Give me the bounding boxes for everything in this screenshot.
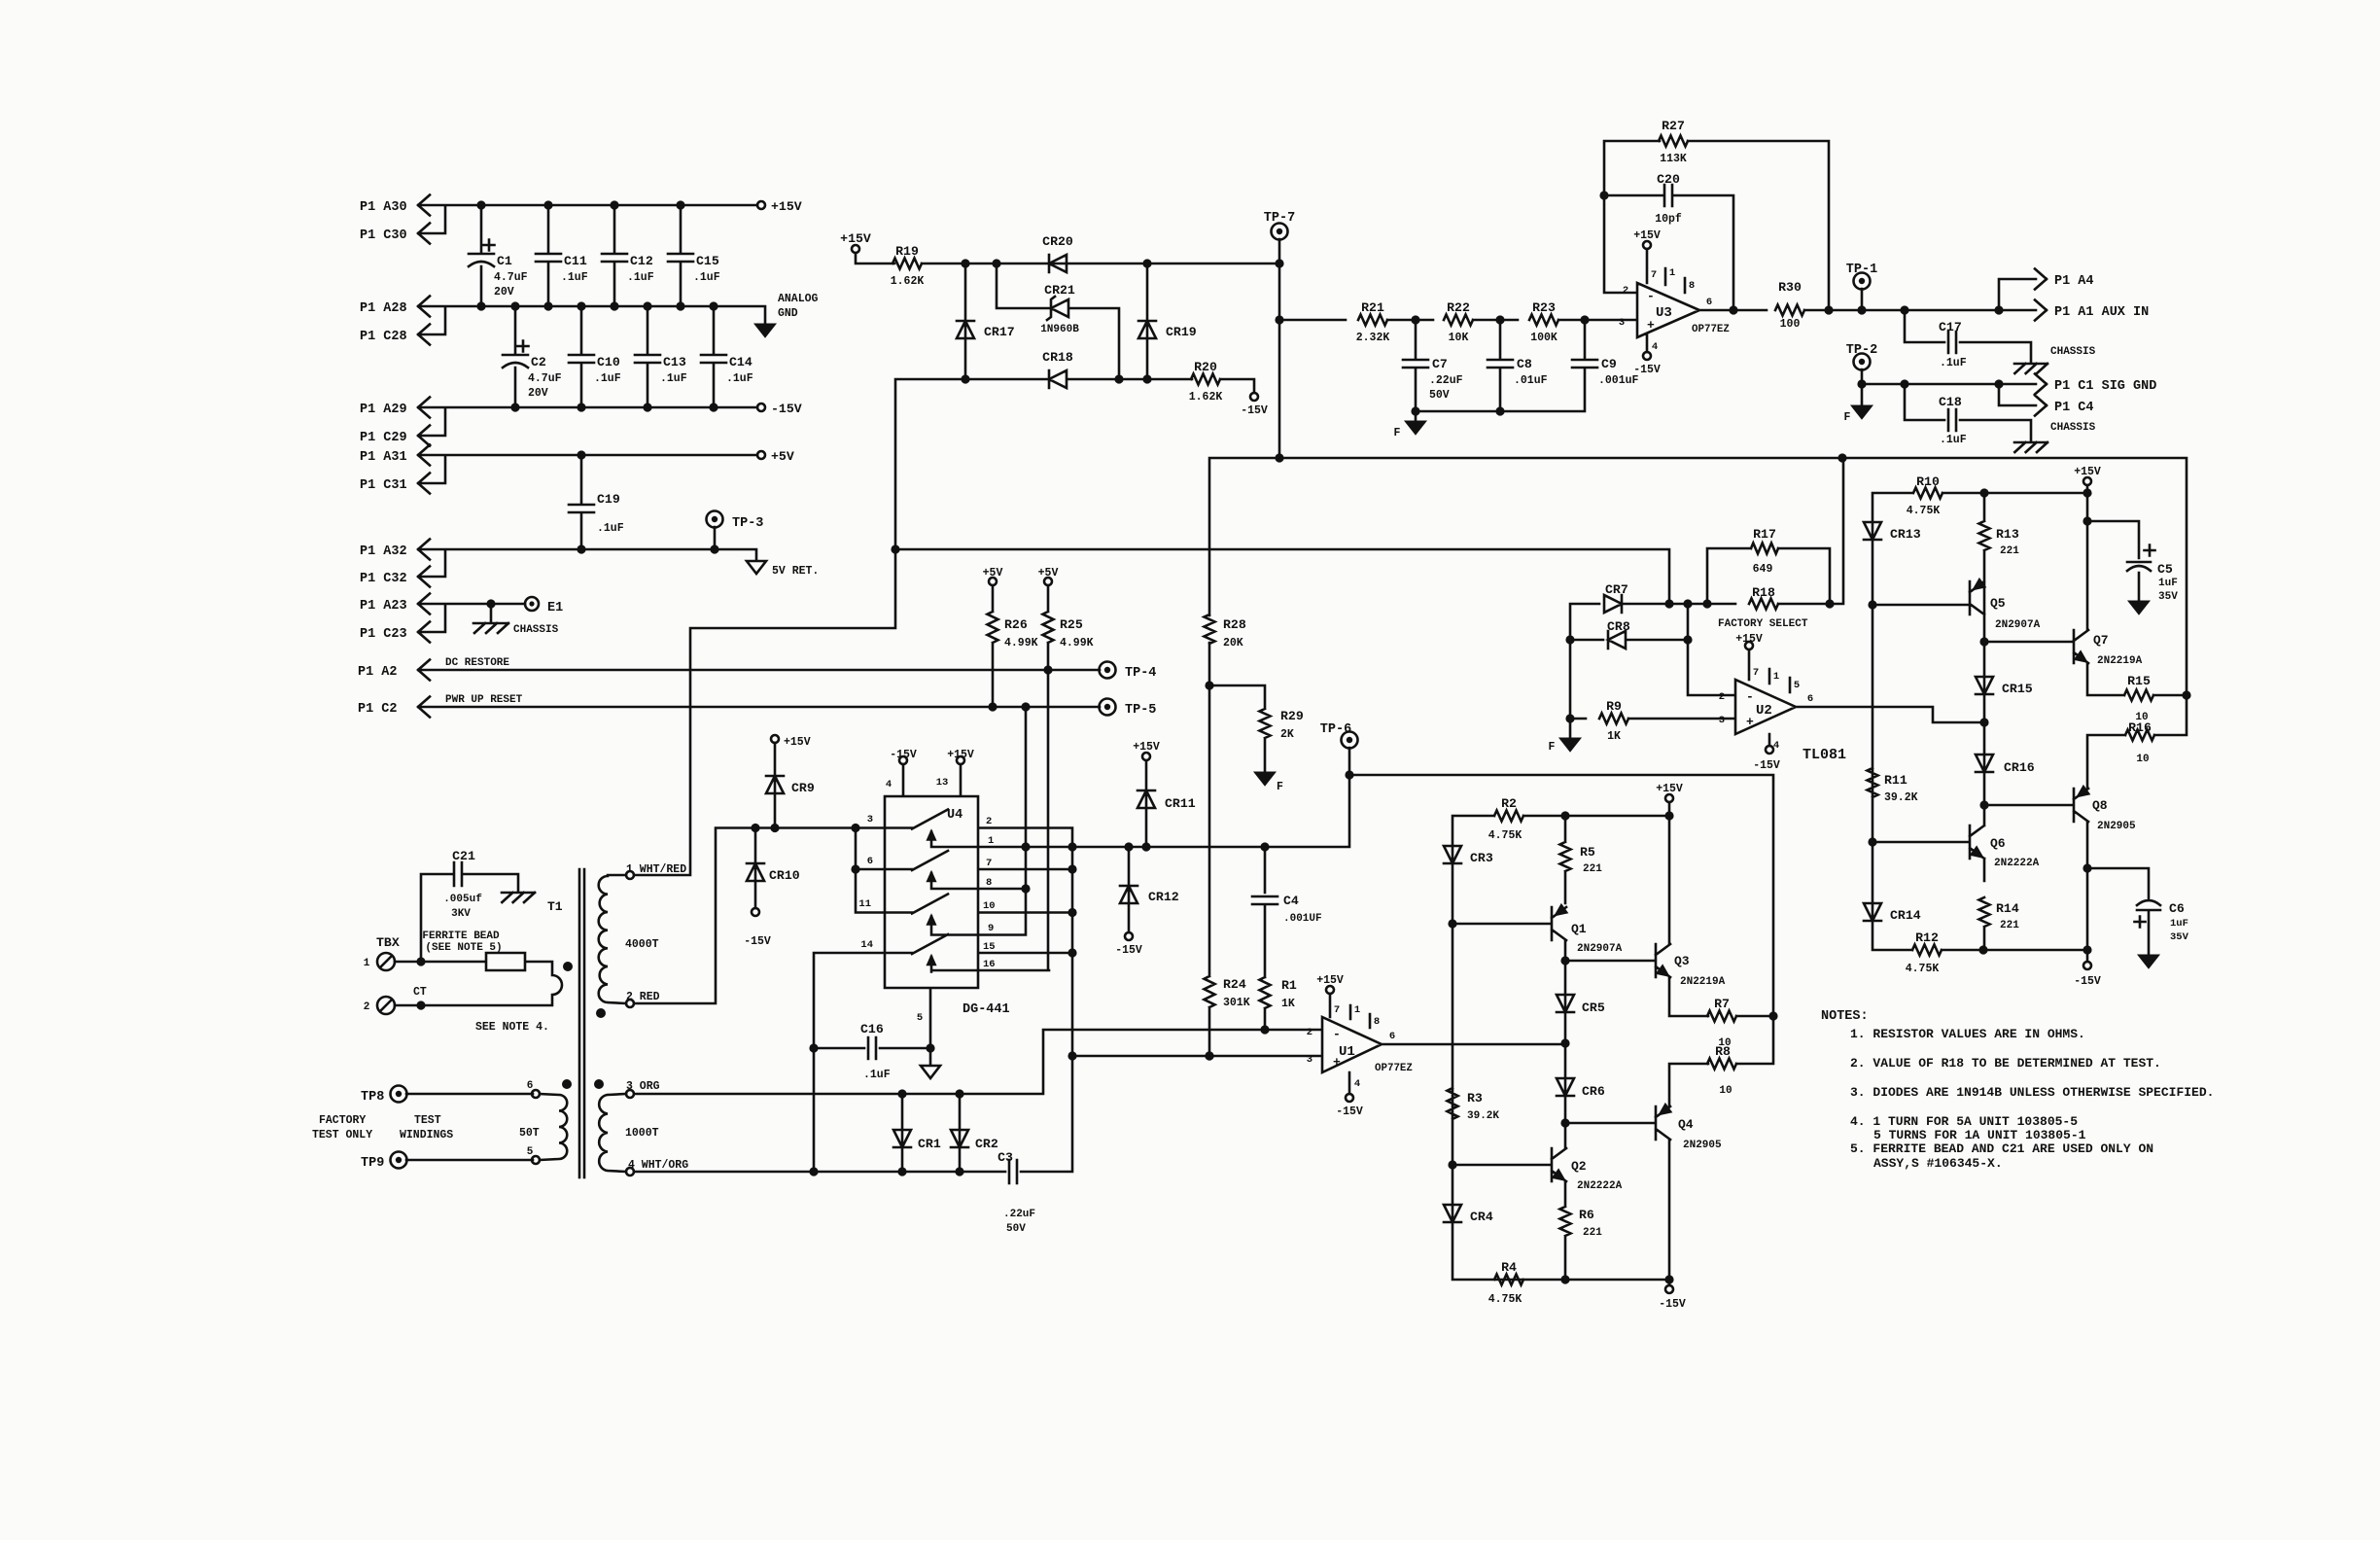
svg-text:.1uF: .1uF bbox=[1940, 357, 1967, 369]
svg-text:2N2905: 2N2905 bbox=[2097, 821, 2136, 832]
svg-text:CR10: CR10 bbox=[769, 868, 800, 883]
svg-text:-15V: -15V bbox=[2074, 975, 2101, 988]
svg-text:.1uF: .1uF bbox=[627, 271, 654, 284]
svg-text:2K: 2K bbox=[1280, 728, 1294, 741]
svg-text:C11: C11 bbox=[564, 254, 587, 268]
svg-text:14: 14 bbox=[860, 939, 873, 951]
svg-text:P1 C4: P1 C4 bbox=[2054, 401, 2094, 415]
svg-text:CHASSIS: CHASSIS bbox=[2050, 346, 2096, 358]
svg-text:OP77EZ: OP77EZ bbox=[1692, 324, 1730, 335]
svg-text:6: 6 bbox=[1807, 693, 1813, 705]
svg-text:R2: R2 bbox=[1501, 796, 1517, 811]
svg-text:TP-7: TP-7 bbox=[1264, 211, 1295, 226]
svg-text:1: 1 bbox=[988, 835, 994, 847]
svg-text:P1 C29: P1 C29 bbox=[360, 431, 407, 445]
svg-text:SEE NOTE 4.: SEE NOTE 4. bbox=[475, 1021, 549, 1034]
svg-text:6: 6 bbox=[1706, 297, 1712, 308]
svg-text:2N2219A: 2N2219A bbox=[2097, 655, 2143, 667]
svg-text:R16: R16 bbox=[2128, 720, 2152, 735]
svg-text:R19: R19 bbox=[895, 244, 919, 259]
svg-text:1: 1 bbox=[1669, 267, 1675, 279]
svg-text:CR2: CR2 bbox=[975, 1137, 998, 1151]
svg-text:R1: R1 bbox=[1281, 978, 1297, 993]
svg-text:113K: 113K bbox=[1660, 153, 1687, 165]
svg-text:39.2K: 39.2K bbox=[1884, 791, 1918, 804]
svg-text:Q2: Q2 bbox=[1571, 1159, 1587, 1174]
svg-text:7: 7 bbox=[1334, 1004, 1340, 1016]
svg-text:-15V: -15V bbox=[1336, 1106, 1363, 1118]
svg-text:+15V: +15V bbox=[2074, 466, 2101, 478]
svg-text:20V: 20V bbox=[494, 286, 514, 298]
svg-text:1.62K: 1.62K bbox=[891, 275, 925, 288]
svg-text:TP-6: TP-6 bbox=[1320, 722, 1351, 737]
svg-text:3: 3 bbox=[1719, 715, 1725, 726]
svg-text:1uF: 1uF bbox=[2170, 918, 2188, 930]
svg-text:.22uF: .22uF bbox=[1429, 374, 1463, 387]
svg-text:-15V: -15V bbox=[890, 749, 917, 761]
svg-text:2: 2 bbox=[1719, 691, 1725, 703]
svg-text:+15V: +15V bbox=[1656, 783, 1683, 795]
svg-text:GND: GND bbox=[778, 307, 798, 320]
svg-text:DC RESTORE: DC RESTORE bbox=[445, 657, 509, 669]
svg-text:P1 A31: P1 A31 bbox=[360, 450, 407, 465]
svg-text:3: 3 bbox=[867, 814, 873, 825]
svg-text:20K: 20K bbox=[1223, 637, 1243, 650]
svg-text:20V: 20V bbox=[528, 387, 548, 400]
svg-text:CR16: CR16 bbox=[2004, 760, 2035, 775]
svg-text:P1 A2: P1 A2 bbox=[358, 665, 398, 680]
svg-text:R15: R15 bbox=[2127, 674, 2151, 688]
svg-text:CHASSIS: CHASSIS bbox=[2050, 422, 2096, 434]
svg-text:16: 16 bbox=[983, 959, 996, 970]
svg-text:P1 A28: P1 A28 bbox=[360, 301, 407, 316]
svg-text:R9: R9 bbox=[1606, 699, 1622, 714]
svg-text:C5: C5 bbox=[2157, 562, 2173, 577]
svg-text:2N2222A: 2N2222A bbox=[1577, 1180, 1623, 1192]
svg-text:C20: C20 bbox=[1657, 172, 1680, 187]
svg-text:CR3: CR3 bbox=[1470, 851, 1493, 865]
svg-text:(SEE NOTE 5): (SEE NOTE 5) bbox=[425, 942, 502, 954]
svg-text:P1 C28: P1 C28 bbox=[360, 330, 407, 344]
svg-text:R14: R14 bbox=[1996, 901, 2019, 916]
svg-text:5: 5 bbox=[917, 1012, 923, 1024]
svg-text:TEST: TEST bbox=[414, 1114, 441, 1127]
svg-text:C16: C16 bbox=[860, 1022, 884, 1036]
svg-text:+15V: +15V bbox=[771, 199, 802, 214]
svg-text:4.75K: 4.75K bbox=[1488, 829, 1522, 842]
svg-text:+5V: +5V bbox=[1038, 567, 1059, 579]
svg-text:C21: C21 bbox=[452, 849, 475, 863]
svg-text:ASSY,S #106345-X.: ASSY,S #106345-X. bbox=[1873, 1156, 2003, 1171]
svg-text:9: 9 bbox=[988, 923, 994, 934]
svg-text:R24: R24 bbox=[1223, 977, 1246, 992]
svg-text:50T: 50T bbox=[519, 1127, 540, 1140]
svg-text:8: 8 bbox=[986, 877, 992, 889]
svg-text:CR8: CR8 bbox=[1607, 619, 1630, 634]
svg-text:P1 C23: P1 C23 bbox=[360, 627, 407, 642]
svg-text:4: 4 bbox=[1354, 1078, 1360, 1090]
svg-text:R29: R29 bbox=[1280, 709, 1304, 723]
svg-text:39.2K: 39.2K bbox=[1467, 1110, 1499, 1122]
svg-text:4. 1 TURN FOR 5A UNIT 103805-5: 4. 1 TURN FOR 5A UNIT 103805-5 bbox=[1850, 1114, 2078, 1129]
svg-text:P1 A32: P1 A32 bbox=[360, 544, 407, 559]
svg-text:1: 1 bbox=[364, 958, 370, 969]
svg-text:R4: R4 bbox=[1501, 1260, 1517, 1275]
svg-text:R26: R26 bbox=[1004, 617, 1028, 632]
svg-text:CR12: CR12 bbox=[1148, 890, 1179, 904]
svg-text:P1 C32: P1 C32 bbox=[360, 572, 407, 586]
svg-text:P1 A23: P1 A23 bbox=[360, 599, 407, 614]
svg-text:1N960B: 1N960B bbox=[1040, 324, 1079, 335]
svg-text:2: 2 bbox=[986, 816, 992, 827]
svg-text:TP-1: TP-1 bbox=[1846, 263, 1877, 277]
svg-text:2N2907A: 2N2907A bbox=[1995, 619, 2041, 631]
svg-text:R5: R5 bbox=[1580, 845, 1595, 860]
svg-text:+15V: +15V bbox=[947, 749, 974, 761]
svg-text:FACTORY SELECT: FACTORY SELECT bbox=[1718, 618, 1808, 630]
svg-text:10K: 10K bbox=[1449, 332, 1469, 344]
svg-text:10pf: 10pf bbox=[1655, 213, 1682, 226]
svg-text:1: 1 bbox=[1773, 671, 1779, 683]
svg-text:1 WHT/RED: 1 WHT/RED bbox=[626, 863, 686, 876]
svg-text:221: 221 bbox=[1583, 863, 1602, 875]
svg-text:ANALOG: ANALOG bbox=[778, 293, 819, 305]
svg-text:CHASSIS: CHASSIS bbox=[513, 624, 559, 636]
svg-text:2: 2 bbox=[1307, 1027, 1312, 1038]
svg-text:221: 221 bbox=[2000, 920, 2019, 931]
svg-text:C3: C3 bbox=[997, 1150, 1013, 1165]
svg-text:CR9: CR9 bbox=[791, 781, 815, 795]
svg-text:WINDINGS: WINDINGS bbox=[400, 1129, 453, 1141]
svg-text:.1uF: .1uF bbox=[863, 1069, 891, 1081]
svg-text:1uF: 1uF bbox=[2158, 578, 2178, 589]
svg-text:+5V: +5V bbox=[983, 567, 1003, 579]
svg-text:Q4: Q4 bbox=[1678, 1117, 1694, 1132]
svg-text:7: 7 bbox=[986, 858, 992, 869]
svg-text:R11: R11 bbox=[1884, 773, 1907, 788]
svg-text:1K: 1K bbox=[1281, 998, 1295, 1010]
svg-text:35V: 35V bbox=[2158, 591, 2178, 603]
svg-text:C9: C9 bbox=[1601, 357, 1617, 371]
svg-text:R20: R20 bbox=[1194, 360, 1217, 374]
svg-text:Q8: Q8 bbox=[2092, 798, 2108, 813]
svg-text:4.99K: 4.99K bbox=[1004, 637, 1038, 650]
svg-text:5: 5 bbox=[1794, 680, 1800, 691]
svg-text:TP-2: TP-2 bbox=[1846, 343, 1877, 358]
svg-text:P1 A29: P1 A29 bbox=[360, 403, 407, 417]
svg-text:1. RESISTOR VALUES ARE IN OHMS: 1. RESISTOR VALUES ARE IN OHMS. bbox=[1850, 1027, 2085, 1041]
svg-text:2N2222A: 2N2222A bbox=[1994, 858, 2040, 869]
svg-text:7: 7 bbox=[1651, 269, 1657, 281]
svg-text:R8: R8 bbox=[1715, 1044, 1731, 1059]
svg-text:649: 649 bbox=[1753, 563, 1773, 576]
svg-text:10: 10 bbox=[983, 900, 996, 912]
svg-text:CR14: CR14 bbox=[1890, 908, 1921, 923]
svg-text:P1 A4: P1 A4 bbox=[2054, 274, 2094, 289]
svg-text:5. FERRITE BEAD AND C21 ARE US: 5. FERRITE BEAD AND C21 ARE USED ONLY ON bbox=[1850, 1141, 2153, 1156]
svg-text:TP-5: TP-5 bbox=[1125, 703, 1156, 718]
svg-text:3. DIODES ARE 1N914B UNLESS OT: 3. DIODES ARE 1N914B UNLESS OTHERWISE SP… bbox=[1850, 1085, 2214, 1100]
svg-text:CR19: CR19 bbox=[1166, 325, 1197, 339]
svg-text:.1uF: .1uF bbox=[597, 522, 624, 535]
svg-text:2. VALUE OF R18 TO BE DETERMIN: 2. VALUE OF R18 TO BE DETERMINED AT TEST… bbox=[1850, 1056, 2161, 1071]
svg-text:-: - bbox=[1647, 289, 1655, 303]
svg-text:C6: C6 bbox=[2169, 901, 2185, 916]
svg-text:R6: R6 bbox=[1579, 1208, 1594, 1222]
svg-text:C15: C15 bbox=[696, 254, 719, 268]
svg-text:-15V: -15V bbox=[1633, 364, 1661, 376]
svg-text:CR17: CR17 bbox=[984, 325, 1015, 339]
svg-text:DG-441: DG-441 bbox=[962, 1002, 1010, 1017]
svg-text:R13: R13 bbox=[1996, 527, 2019, 542]
svg-text:+: + bbox=[1647, 318, 1655, 333]
svg-text:U1: U1 bbox=[1339, 1044, 1355, 1060]
svg-text:4: 4 bbox=[886, 779, 892, 790]
svg-text:-15V: -15V bbox=[1659, 1298, 1686, 1311]
svg-text:Q5: Q5 bbox=[1990, 596, 2006, 611]
svg-text:TP9: TP9 bbox=[361, 1156, 384, 1171]
svg-text:P1 A1 AUX IN: P1 A1 AUX IN bbox=[2054, 305, 2149, 320]
svg-text:PWR UP RESET: PWR UP RESET bbox=[445, 694, 523, 706]
svg-text:CR13: CR13 bbox=[1890, 527, 1921, 542]
svg-text:2N2907A: 2N2907A bbox=[1577, 943, 1623, 955]
svg-text:T1: T1 bbox=[547, 899, 563, 914]
svg-text:Q6: Q6 bbox=[1990, 836, 2006, 851]
svg-text:1K: 1K bbox=[1607, 730, 1621, 743]
svg-text:NOTES:: NOTES: bbox=[1821, 1009, 1869, 1024]
svg-text:P1 C1 SIG GND: P1 C1 SIG GND bbox=[2054, 379, 2156, 394]
svg-text:R25: R25 bbox=[1060, 617, 1083, 632]
svg-text:-: - bbox=[1333, 1027, 1341, 1041]
svg-text:CR21: CR21 bbox=[1044, 283, 1075, 298]
svg-text:F: F bbox=[1549, 741, 1556, 754]
svg-text:6: 6 bbox=[527, 1080, 534, 1092]
svg-text:+15V: +15V bbox=[1316, 974, 1344, 987]
svg-text:R10: R10 bbox=[1916, 474, 1940, 489]
svg-text:TP-4: TP-4 bbox=[1125, 666, 1156, 681]
svg-text:2.32K: 2.32K bbox=[1356, 332, 1390, 344]
svg-text:-15V: -15V bbox=[1753, 759, 1780, 772]
svg-text:221: 221 bbox=[2000, 545, 2019, 557]
svg-text:R17: R17 bbox=[1753, 527, 1776, 542]
svg-text:4.75K: 4.75K bbox=[1488, 1293, 1522, 1306]
svg-text:2 RED: 2 RED bbox=[626, 991, 660, 1003]
svg-text:C18: C18 bbox=[1939, 395, 1962, 409]
svg-text:.22uF: .22uF bbox=[1003, 1209, 1035, 1220]
svg-text:C17: C17 bbox=[1939, 320, 1962, 334]
svg-text:221: 221 bbox=[1583, 1227, 1602, 1239]
svg-text:6: 6 bbox=[867, 856, 873, 867]
svg-text:R12: R12 bbox=[1915, 931, 1939, 945]
svg-text:C8: C8 bbox=[1517, 357, 1532, 371]
svg-text:C10: C10 bbox=[597, 355, 620, 369]
svg-text:1.62K: 1.62K bbox=[1189, 391, 1223, 404]
svg-text:U3: U3 bbox=[1656, 305, 1672, 321]
svg-text:CR20: CR20 bbox=[1042, 234, 1073, 249]
svg-text:4: 4 bbox=[1652, 341, 1658, 353]
svg-text:Q1: Q1 bbox=[1571, 922, 1587, 936]
svg-text:11: 11 bbox=[858, 898, 871, 910]
svg-text:R23: R23 bbox=[1532, 300, 1556, 315]
svg-text:+5V: +5V bbox=[771, 449, 794, 464]
svg-text:OP77EZ: OP77EZ bbox=[1375, 1063, 1413, 1074]
svg-text:F: F bbox=[1277, 781, 1283, 793]
svg-text:5 TURNS FOR 1A UNIT 103805-1: 5 TURNS FOR 1A UNIT 103805-1 bbox=[1873, 1128, 2086, 1142]
svg-text:R7: R7 bbox=[1714, 997, 1730, 1011]
svg-text:P1 C30: P1 C30 bbox=[360, 228, 407, 243]
svg-text:3: 3 bbox=[1307, 1054, 1312, 1066]
svg-text:4.75K: 4.75K bbox=[1906, 963, 1940, 975]
svg-text:2N2219A: 2N2219A bbox=[1680, 976, 1726, 988]
svg-text:4000T: 4000T bbox=[625, 938, 659, 951]
svg-text:R27: R27 bbox=[1662, 119, 1685, 133]
svg-text:CR1: CR1 bbox=[918, 1137, 941, 1151]
svg-text:4.99K: 4.99K bbox=[1060, 637, 1094, 650]
svg-text:FERRITE BEAD: FERRITE BEAD bbox=[422, 931, 500, 942]
svg-text:8: 8 bbox=[1374, 1016, 1380, 1028]
svg-text:-15V: -15V bbox=[771, 402, 802, 416]
svg-text:TP-3: TP-3 bbox=[732, 516, 763, 531]
svg-text:+15V: +15V bbox=[784, 736, 811, 749]
svg-text:R22: R22 bbox=[1447, 300, 1470, 315]
svg-text:.005uf: .005uf bbox=[443, 894, 482, 905]
svg-text:CR15: CR15 bbox=[2002, 682, 2033, 696]
svg-text:2: 2 bbox=[1623, 285, 1628, 297]
svg-text:R21: R21 bbox=[1361, 300, 1384, 315]
svg-text:+: + bbox=[1746, 715, 1754, 729]
svg-text:.1uF: .1uF bbox=[660, 372, 687, 385]
svg-text:P1 C31: P1 C31 bbox=[360, 478, 407, 493]
svg-text:C4: C4 bbox=[1283, 894, 1299, 908]
svg-text:C14: C14 bbox=[729, 355, 752, 369]
svg-text:10: 10 bbox=[2136, 754, 2149, 765]
svg-text:50V: 50V bbox=[1006, 1223, 1026, 1235]
svg-text:35V: 35V bbox=[2170, 931, 2189, 943]
svg-text:4.75K: 4.75K bbox=[1907, 505, 1941, 517]
svg-text:1000T: 1000T bbox=[625, 1127, 659, 1140]
svg-text:R30: R30 bbox=[1778, 280, 1802, 295]
svg-text:7: 7 bbox=[1753, 667, 1759, 679]
svg-text:3 ORG: 3 ORG bbox=[626, 1080, 660, 1093]
svg-text:FACTORY: FACTORY bbox=[319, 1114, 366, 1127]
svg-text:.1uF: .1uF bbox=[594, 372, 621, 385]
svg-text:301K: 301K bbox=[1223, 997, 1250, 1009]
svg-text:.1uF: .1uF bbox=[693, 271, 720, 284]
svg-text:4.7uF: 4.7uF bbox=[528, 372, 562, 385]
svg-text:R28: R28 bbox=[1223, 617, 1246, 632]
svg-text:+15V: +15V bbox=[1133, 741, 1160, 754]
svg-text:Q3: Q3 bbox=[1674, 954, 1690, 968]
svg-text:F: F bbox=[1394, 427, 1401, 439]
svg-text:.001UF: .001UF bbox=[1283, 913, 1322, 925]
svg-text:.1uF: .1uF bbox=[561, 271, 588, 284]
svg-text:+15V: +15V bbox=[1633, 229, 1661, 242]
svg-text:50V: 50V bbox=[1429, 389, 1450, 402]
svg-text:TBX: TBX bbox=[376, 935, 400, 950]
svg-text:CR18: CR18 bbox=[1042, 350, 1073, 365]
svg-text:-15V: -15V bbox=[1115, 944, 1142, 957]
svg-text:C13: C13 bbox=[663, 355, 686, 369]
svg-text:U2: U2 bbox=[1756, 703, 1772, 719]
svg-text:2: 2 bbox=[364, 1001, 370, 1013]
svg-text:6: 6 bbox=[1389, 1031, 1395, 1042]
svg-text:C12: C12 bbox=[630, 254, 653, 268]
svg-text:.1uF: .1uF bbox=[1940, 434, 1967, 446]
svg-text:100: 100 bbox=[1780, 318, 1801, 331]
svg-text:3: 3 bbox=[1619, 317, 1625, 329]
svg-text:P1 C2: P1 C2 bbox=[358, 702, 398, 717]
svg-text:C7: C7 bbox=[1432, 357, 1448, 371]
svg-text:100K: 100K bbox=[1530, 332, 1557, 344]
svg-text:TEST ONLY: TEST ONLY bbox=[312, 1129, 372, 1141]
svg-text:-: - bbox=[1746, 689, 1754, 704]
svg-text:-15V: -15V bbox=[1241, 404, 1268, 417]
svg-text:C19: C19 bbox=[597, 492, 620, 507]
svg-text:5: 5 bbox=[527, 1146, 534, 1158]
svg-text:4: 4 bbox=[1773, 740, 1779, 752]
svg-text:+15V: +15V bbox=[840, 231, 871, 246]
svg-text:CR7: CR7 bbox=[1605, 582, 1628, 597]
svg-text:R18: R18 bbox=[1752, 585, 1775, 600]
svg-text:C2: C2 bbox=[531, 355, 546, 369]
svg-text:E1: E1 bbox=[547, 601, 563, 615]
svg-text:P1 A30: P1 A30 bbox=[360, 200, 407, 215]
svg-text:2N2905: 2N2905 bbox=[1683, 1140, 1722, 1151]
svg-text:-15V: -15V bbox=[744, 935, 771, 948]
svg-text:.1uF: .1uF bbox=[726, 372, 753, 385]
svg-text:Q7: Q7 bbox=[2093, 633, 2109, 648]
svg-text:CR11: CR11 bbox=[1165, 796, 1196, 811]
svg-text:TP8: TP8 bbox=[361, 1090, 384, 1105]
svg-text:CT: CT bbox=[413, 986, 427, 999]
svg-text:+15V: +15V bbox=[1735, 633, 1763, 646]
svg-text:15: 15 bbox=[983, 941, 996, 953]
svg-text:1: 1 bbox=[1354, 1004, 1360, 1016]
svg-text:3KV: 3KV bbox=[451, 908, 471, 920]
svg-text:4 WHT/ORG: 4 WHT/ORG bbox=[628, 1159, 688, 1172]
svg-text:R3: R3 bbox=[1467, 1091, 1483, 1106]
svg-text:C1: C1 bbox=[497, 254, 512, 268]
svg-text:10: 10 bbox=[1719, 1085, 1732, 1097]
svg-text:13: 13 bbox=[936, 777, 949, 789]
svg-text:CR5: CR5 bbox=[1582, 1001, 1605, 1015]
svg-text:U4: U4 bbox=[947, 808, 962, 823]
svg-text:5V RET.: 5V RET. bbox=[772, 565, 819, 578]
svg-text:CR4: CR4 bbox=[1470, 1210, 1493, 1224]
svg-text:TL081: TL081 bbox=[1802, 747, 1846, 763]
svg-text:CR6: CR6 bbox=[1582, 1084, 1605, 1099]
svg-text:4.7uF: 4.7uF bbox=[494, 271, 528, 284]
svg-text:8: 8 bbox=[1689, 280, 1695, 292]
svg-text:.01uF: .01uF bbox=[1514, 374, 1548, 387]
svg-text:F: F bbox=[1844, 411, 1851, 424]
